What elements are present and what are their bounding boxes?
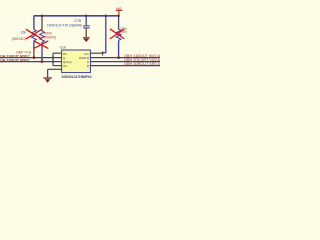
capacitor C78 plates: [83, 26, 90, 28]
wire left row B: [0, 57, 62, 59]
wire column1 upper: [33, 16, 35, 30]
wire right vertical upper: [118, 16, 120, 29]
resistor R198 body: [32, 30, 37, 41]
wire column2 upper: [41, 16, 43, 31]
ground under IC: [43, 78, 51, 83]
junction dot col2/row C: [41, 60, 44, 63]
svg-text:QBH 30BOUT AR0 A: QBH 30BOUT AR0 A: [124, 62, 160, 66]
junction dot pin A: [101, 51, 103, 55]
svg-text:10k: 10k: [21, 31, 27, 35]
DNP cross X3 over R201: [110, 29, 124, 38]
junction dot bus/row C: [52, 61, 54, 63]
junction dot rail/power stem: [117, 15, 120, 18]
junction dot bus/row B: [52, 57, 54, 59]
wire right vertical lower: [118, 40, 120, 57]
wire C78 upper lead: [85, 16, 87, 26]
wire column1 lower: [33, 41, 35, 48]
resistor R201 body: [116, 29, 121, 40]
wire left bus vertical: [52, 53, 54, 65]
svg-text:150nF/6.3V X7R 10B(4046): 150nF/6.3V X7R 10B(4046): [47, 24, 82, 28]
junction dot R201/out wire: [117, 56, 120, 59]
wire ground drop: [47, 69, 49, 77]
junction dot rail/middle vertical: [105, 15, 108, 18]
resistor R200 body: [40, 31, 45, 42]
wire left row D: [53, 65, 62, 67]
junction dot col1/row B: [33, 56, 36, 59]
wire right row B: [91, 57, 161, 59]
junction dot rail/C78: [85, 15, 88, 18]
junction dot rail/column2: [41, 15, 44, 18]
power port VtB bar: [116, 10, 123, 15]
wire pin A horizontal: [91, 52, 103, 54]
svg-text:(50H4C): (50H4C): [44, 36, 56, 40]
wire column2 lower: [41, 42, 43, 61]
wire C78 lower lead: [85, 28, 87, 37]
ground under C78: [83, 38, 90, 42]
wire right row C: [91, 61, 161, 63]
wire left row C: [0, 61, 62, 63]
wire top VDD rail: [34, 15, 119, 17]
svg-text:SG8002JA7HB8P00: SG8002JA7HB8P00: [62, 75, 92, 79]
wire middle vertical (rail to pin A): [103, 16, 106, 53]
svg-text:VtB: VtB: [116, 7, 122, 11]
IC U10 body: [62, 50, 91, 73]
DNP cross X2 over R200: [34, 41, 47, 48]
svg-text:C78: C78: [75, 19, 82, 23]
svg-text:Vin: Vin: [63, 64, 68, 68]
svg-text:(50H4C): (50H4C): [12, 37, 26, 41]
wire ground pin row: [48, 68, 62, 70]
wire left pin stub row A: [53, 52, 62, 54]
wire right row D: [91, 65, 161, 67]
DNP cross X1 over R198: [26, 30, 41, 39]
sheet background: [0, 0, 160, 90]
svg-text:U10: U10: [60, 45, 67, 49]
